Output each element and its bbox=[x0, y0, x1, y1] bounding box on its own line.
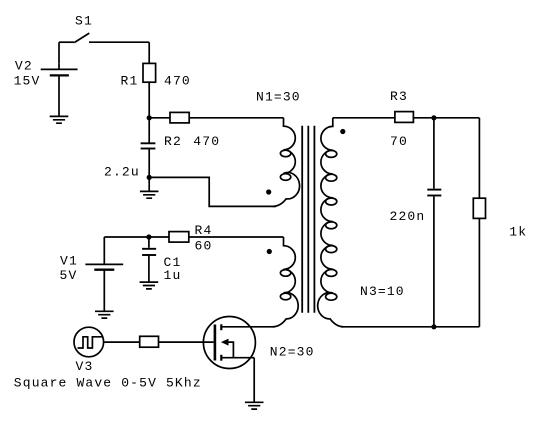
wire gate resistor to Q1 gate bbox=[159, 341, 214, 343]
svg-text:Square Wave 0-5V 5Khz: Square Wave 0-5V 5Khz bbox=[14, 375, 202, 390]
transistor Q1 MOSFET bbox=[203, 317, 275, 369]
svg-text:V1: V1 bbox=[60, 253, 78, 268]
ground under C1 bbox=[140, 282, 159, 289]
svg-text:R2: R2 bbox=[164, 134, 182, 149]
capacitor 2.2u bbox=[104, 143, 155, 179]
ground under 2.2u bbox=[140, 191, 159, 198]
svg-text:5V: 5V bbox=[60, 268, 78, 283]
node capacitor/N1 junction bbox=[147, 175, 152, 180]
svg-text:2.2u: 2.2u bbox=[104, 164, 140, 179]
wire V3 to gate resistor bbox=[104, 341, 139, 343]
battery V1 bbox=[60, 237, 124, 311]
ground under Q1 source bbox=[245, 402, 264, 409]
node R1/R2 junction bbox=[147, 115, 152, 120]
wire S1 to V2 bbox=[58, 42, 60, 63]
svg-text:470: 470 bbox=[193, 134, 220, 149]
resistor R1 bbox=[121, 42, 191, 143]
wire S1 to R1 bbox=[89, 41, 149, 43]
svg-text:220n: 220n bbox=[390, 209, 426, 224]
transformer winding N1 bbox=[256, 89, 301, 206]
node V1/C1/R4 junction bbox=[146, 234, 151, 239]
svg-text:60: 60 bbox=[195, 238, 213, 253]
wire capacitor to N1 bottom bbox=[149, 177, 276, 206]
svg-text:S1: S1 bbox=[75, 14, 93, 29]
switch S1 bbox=[59, 14, 93, 43]
svg-text:15V: 15V bbox=[14, 74, 41, 89]
transformer core bbox=[302, 126, 314, 313]
wire to ground bbox=[148, 177, 150, 191]
svg-text:N1=30: N1=30 bbox=[256, 89, 301, 104]
svg-text:V3: V3 bbox=[76, 359, 94, 374]
svg-text:V2: V2 bbox=[15, 59, 33, 74]
svg-text:N3=10: N3=10 bbox=[360, 284, 405, 299]
svg-text:70: 70 bbox=[390, 134, 408, 149]
battery V2 bbox=[14, 59, 78, 89]
ground under V1 bbox=[95, 311, 114, 318]
wire Q1 source to ground bbox=[253, 358, 255, 402]
resistor 1k bbox=[473, 118, 527, 327]
capacitor 220n bbox=[390, 118, 442, 327]
wire V2 to ground bbox=[58, 64, 60, 116]
capacitor C1 bbox=[142, 237, 181, 283]
phase dot secondary bbox=[340, 129, 345, 134]
svg-text:1k: 1k bbox=[509, 224, 527, 239]
transformer winding secondary bbox=[318, 118, 405, 327]
transformer winding N2 bbox=[270, 237, 315, 360]
phase dot N1 bbox=[266, 189, 271, 194]
node R3/220n junction bbox=[431, 115, 436, 120]
svg-text:R3: R3 bbox=[390, 89, 408, 104]
phase dot N2 bbox=[267, 249, 272, 254]
source V3 bbox=[74, 327, 104, 374]
svg-text:N2=30: N2=30 bbox=[270, 345, 315, 360]
resistor R3 bbox=[333, 89, 480, 149]
resistor gate bbox=[140, 336, 159, 347]
svg-text:R4: R4 bbox=[195, 223, 213, 238]
svg-text:R1: R1 bbox=[121, 73, 139, 88]
wire V1 top bbox=[104, 236, 169, 238]
svg-text:1u: 1u bbox=[164, 268, 182, 283]
wire bottom rail bbox=[341, 326, 479, 328]
resistor R2 bbox=[149, 112, 283, 149]
node 220n/rail junction bbox=[431, 324, 436, 329]
svg-text:470: 470 bbox=[164, 73, 191, 88]
resistor R4 bbox=[169, 223, 284, 254]
ground under V2 bbox=[50, 116, 69, 123]
